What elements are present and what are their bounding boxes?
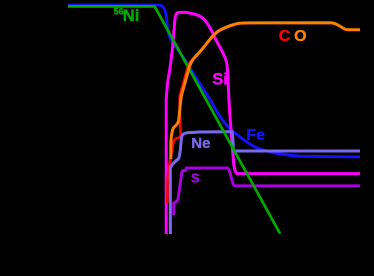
svg-text:C: C [279,28,291,45]
svg-text:O: O [294,28,306,45]
svg-text:S: S [191,170,200,185]
svg-text:Si: Si [212,70,228,88]
svg-text:Ne: Ne [191,135,210,152]
svg-text:Fe: Fe [246,127,265,144]
svg-text:Ni: Ni [123,7,140,25]
